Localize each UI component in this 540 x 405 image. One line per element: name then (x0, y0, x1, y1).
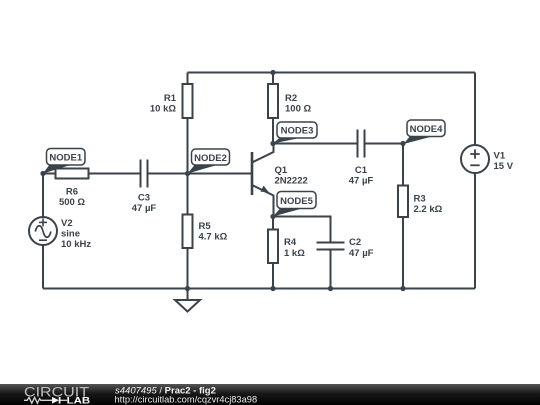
svg-text:C1: C1 (355, 165, 368, 176)
resistor R1 (150, 84, 193, 118)
wire NODE3 to C1 (273, 143, 358, 145)
svg-text:NODE3: NODE3 (281, 126, 314, 137)
svg-text:NODE5: NODE5 (280, 196, 313, 207)
wire R5 top lead (187, 174, 189, 215)
svg-text:47 µF: 47 µF (349, 248, 374, 259)
svg-text:C2: C2 (349, 237, 361, 248)
capacitor C1 (349, 130, 374, 187)
wire base of Q1 (188, 173, 253, 175)
junction dot NODE3 (270, 141, 275, 146)
svg-text:10 kΩ: 10 kΩ (150, 104, 176, 115)
svg-text:R1: R1 (164, 93, 177, 104)
node NODE3 (273, 122, 317, 144)
wire bottom rail (43, 288, 475, 290)
junction dot NODE4 (400, 141, 405, 146)
junction dot R3 bottom (400, 286, 405, 291)
node NODE2 (188, 149, 230, 174)
junction dot ground R5 (185, 286, 190, 291)
wire top rail (188, 72, 476, 74)
svg-text:R5: R5 (199, 221, 212, 232)
wire C3 to node NODE2 (148, 173, 188, 175)
wire R4 top lead (272, 217, 274, 230)
svg-text:R3: R3 (414, 193, 426, 204)
node NODE4 (404, 120, 446, 144)
svg-text:1 kΩ: 1 kΩ (284, 248, 305, 259)
svg-text:NODE4: NODE4 (410, 124, 443, 135)
junction dot NODE1 (40, 171, 45, 176)
svg-text:NODE2: NODE2 (194, 153, 227, 164)
wire R1 bottom lead (187, 118, 189, 174)
junction dot C2 bottom (328, 286, 333, 291)
voltage source V2 (29, 217, 91, 250)
wire V1 bottom lead (474, 173, 476, 289)
svg-text:47 µF: 47 µF (132, 203, 157, 214)
svg-text:V2: V2 (61, 218, 73, 229)
wire C1 to NODE4 (364, 143, 403, 145)
resistor R4 (268, 230, 305, 264)
svg-text:2N2222: 2N2222 (275, 176, 308, 187)
svg-text:2.2 kΩ: 2.2 kΩ (414, 204, 443, 215)
junction dot NODE2 (185, 171, 190, 176)
svg-text:47 µF: 47 µF (349, 176, 374, 187)
ground (175, 289, 200, 312)
svg-text:LAB: LAB (67, 395, 91, 405)
transistor Q1 (252, 144, 308, 217)
voltage source V1 (461, 145, 514, 173)
svg-text:V1: V1 (494, 150, 506, 161)
svg-text:R4: R4 (284, 237, 297, 248)
wire R3 bottom lead (402, 217, 404, 289)
wire R2 top lead (272, 73, 274, 85)
svg-text:100 Ω: 100 Ω (285, 104, 311, 115)
junction dot top rail R2 (270, 70, 275, 75)
junction dot R4 bottom (270, 286, 275, 291)
footer bar (0, 384, 540, 405)
capacitor C2 (317, 237, 374, 259)
wire R5 bottom lead (187, 248, 189, 289)
wire R6 left lead (43, 173, 56, 175)
svg-text:500 Ω: 500 Ω (59, 197, 85, 208)
wire V2 bottom lead (42, 245, 44, 289)
node NODE5 (273, 192, 316, 217)
svg-text:http://circuitlab.com/cqzvr4cj: http://circuitlab.com/cqzvr4cj83a98 (115, 395, 258, 405)
wire R2 bottom lead (272, 118, 274, 144)
resistor R2 (268, 84, 311, 118)
svg-text:10 kHz: 10 kHz (61, 239, 91, 250)
capacitor C3 (132, 160, 157, 215)
wire R6 to C3 (89, 173, 141, 175)
svg-text:Q1: Q1 (275, 165, 288, 176)
resistor R5 (183, 215, 228, 249)
wire emitter node to C2 (273, 217, 331, 243)
svg-text:4.7 kΩ: 4.7 kΩ (199, 232, 228, 243)
resistor R3 (398, 186, 443, 218)
wire R4 bottom lead (272, 263, 274, 289)
footer logo CIRCUIT LAB (24, 384, 90, 405)
resistor R6 (56, 169, 89, 209)
svg-text:15 V: 15 V (494, 161, 514, 172)
wire V1 top lead (474, 73, 476, 146)
svg-text:R6: R6 (66, 186, 78, 197)
node NODE1 (43, 149, 85, 174)
svg-text:NODE1: NODE1 (49, 153, 82, 164)
wire C2 bottom lead (330, 249, 332, 289)
wire R1 top lead (187, 73, 189, 85)
wire R3 top lead (402, 144, 404, 186)
svg-text:R2: R2 (285, 93, 297, 104)
wire V2 top lead (42, 174, 44, 218)
svg-text:C3: C3 (138, 192, 150, 203)
footer text (115, 386, 258, 405)
svg-text:sine: sine (61, 229, 80, 240)
junction dot NODE5 (270, 214, 275, 219)
